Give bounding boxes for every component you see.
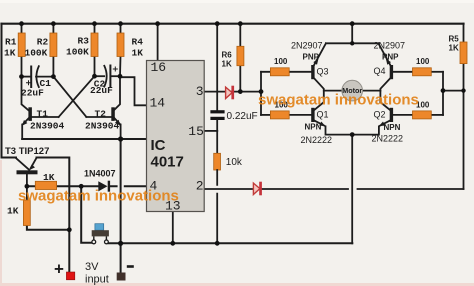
resistor 100 ohm Q1 base bbox=[261, 111, 289, 119]
transistor Q3 2N2907 bbox=[289, 43, 326, 102]
wire: IC pin 3 output to bridge left bbox=[204, 91, 261, 93]
resistor R5 1K bbox=[460, 42, 467, 64]
svg-text:input: input bbox=[85, 274, 109, 286]
transistor Q1 2N2222 bbox=[289, 102, 352, 134]
wire: IC pin 13 to bottom rail bbox=[172, 212, 174, 244]
svg-text:22uF: 22uF bbox=[21, 88, 44, 99]
transistor Q4 2N2907 bbox=[378, 43, 412, 102]
svg-text:100K: 100K bbox=[66, 47, 89, 58]
wire: bottom negative rail bbox=[108, 242, 352, 244]
motor M1 bbox=[342, 80, 363, 101]
svg-text:T3 TIP127: T3 TIP127 bbox=[5, 146, 49, 157]
resistor R6 1K pullup bbox=[237, 24, 244, 92]
svg-text:16: 16 bbox=[151, 60, 167, 75]
svg-text:Q3: Q3 bbox=[317, 67, 329, 77]
svg-text:2N3904: 2N3904 bbox=[30, 121, 65, 132]
capacitor 0.22uF reset bbox=[210, 24, 224, 131]
svg-text:T1: T1 bbox=[37, 108, 49, 119]
svg-text:2N2907: 2N2907 bbox=[291, 40, 323, 50]
svg-text:PNP: PNP bbox=[303, 53, 320, 62]
resistor 100 ohm Q4 base bbox=[413, 68, 444, 76]
svg-text:1K: 1K bbox=[43, 172, 55, 183]
wire: R4 node to IC pin 14 bbox=[120, 77, 147, 105]
wire: left base feed vertical from pin 3 bbox=[260, 72, 262, 115]
resistor 100 ohm Q3 base bbox=[261, 68, 289, 76]
svg-text:1K: 1K bbox=[4, 48, 16, 59]
svg-text:2: 2 bbox=[196, 178, 204, 193]
svg-text:1K: 1K bbox=[7, 206, 19, 217]
wire: battery minus lead bbox=[120, 243, 122, 272]
svg-text:10k: 10k bbox=[226, 157, 243, 168]
svg-text:Q1: Q1 bbox=[317, 109, 329, 119]
svg-text:R2: R2 bbox=[37, 37, 49, 48]
svg-text:swagatam innovations: swagatam innovations bbox=[18, 188, 179, 205]
diode 1N4007 bbox=[98, 181, 110, 192]
svg-text:R5: R5 bbox=[449, 35, 460, 44]
svg-text:1N4007: 1N4007 bbox=[84, 168, 116, 178]
svg-text:swagatam innovations: swagatam innovations bbox=[258, 92, 419, 109]
svg-text:+: + bbox=[54, 260, 64, 279]
resistor R1 1K bbox=[18, 24, 25, 77]
resistor 1K vertical T3 base-emitter bbox=[23, 200, 30, 226]
svg-text:2N3904: 2N3904 bbox=[85, 121, 120, 132]
transistor T1 2N3904 bbox=[22, 77, 59, 139]
push button switch bbox=[92, 224, 109, 244]
svg-text:Q4: Q4 bbox=[374, 66, 386, 76]
wire: negative drop line from emitter rail to bottom rail bbox=[120, 139, 122, 243]
svg-text:22uF: 22uF bbox=[90, 85, 113, 96]
svg-text:PNP: PNP bbox=[382, 53, 399, 62]
wire: T3 base node to 1K resistors bbox=[27, 185, 98, 187]
svg-text:T2: T2 bbox=[95, 108, 107, 119]
wire: left border from top rail down to T3 collector bbox=[1, 24, 3, 158]
battery minus terminal bbox=[117, 273, 126, 281]
capacitor C1 22uF bbox=[22, 66, 54, 87]
IC U1 4017 body bbox=[147, 61, 205, 212]
motor leads bbox=[324, 90, 381, 92]
svg-text:3V: 3V bbox=[85, 261, 99, 273]
svg-text:IC: IC bbox=[151, 137, 166, 154]
wire: R5 node to right base vertical bbox=[443, 90, 464, 92]
resistor R4 1K bbox=[117, 24, 124, 77]
transistor Q2 2N2222 bbox=[352, 102, 412, 134]
wire: diode cathode to IC pin 4 (hops negative drop line) bbox=[110, 185, 146, 187]
transistor T3 TIP127 bbox=[16, 158, 38, 200]
svg-text:1K: 1K bbox=[449, 44, 459, 53]
svg-text:1K: 1K bbox=[222, 60, 232, 69]
svg-text:3: 3 bbox=[196, 84, 204, 99]
svg-text:2N2222: 2N2222 bbox=[372, 134, 404, 144]
wire: +V top supply rail bbox=[2, 23, 464, 25]
capacitor C2 22uF bbox=[95, 66, 120, 87]
wire: right base feed vertical bbox=[442, 72, 444, 115]
wire: T3 collector/emitter row and feed to battery plus bbox=[2, 158, 70, 272]
red break marker on pin 2 wire bbox=[253, 182, 262, 196]
svg-text:4017: 4017 bbox=[151, 153, 184, 170]
wire: IC pin 2 output to bridge right (hops bridge emitter line) bbox=[204, 188, 463, 190]
resistor R3 100K bbox=[91, 24, 98, 76]
wire: IC pin 16 to top rail bbox=[157, 24, 159, 61]
svg-text:NPN: NPN bbox=[384, 123, 401, 132]
wire: bridge top feed bbox=[326, 24, 379, 44]
svg-text:1K: 1K bbox=[132, 48, 144, 59]
wire: right border R5 branch down to pin 2 line bbox=[463, 24, 465, 189]
resistor 1K horizontal at T3 base bbox=[35, 181, 56, 189]
wire: IC pin 15 stub bbox=[204, 130, 217, 132]
wire: bridge emitter line to bottom rail bbox=[351, 135, 353, 244]
wire: emitter ground rail of T1/T2 to IC pin 8 bbox=[22, 138, 146, 140]
svg-text:Q2: Q2 bbox=[374, 109, 386, 119]
wire: lower 1K to battery plus junction bbox=[27, 226, 69, 230]
svg-text:0.22uF: 0.22uF bbox=[227, 111, 258, 122]
transistor T2 2N3904 bbox=[86, 76, 120, 139]
svg-text:100K: 100K bbox=[25, 48, 48, 59]
wire: cross coupling C1 node to T2 base bbox=[53, 77, 86, 117]
svg-text:100: 100 bbox=[416, 57, 430, 66]
svg-text:R4: R4 bbox=[132, 37, 144, 48]
svg-text:100: 100 bbox=[274, 57, 288, 66]
red break marker on pin 3 wire bbox=[226, 86, 234, 100]
label minus bbox=[127, 265, 134, 268]
wire: push button left lead from diode anode node bbox=[81, 186, 92, 243]
svg-text:R6: R6 bbox=[222, 51, 233, 60]
wire: cross coupling C2 node to T1 base bbox=[59, 76, 95, 117]
svg-text:NPN: NPN bbox=[305, 122, 322, 131]
battery plus terminal bbox=[66, 272, 74, 280]
svg-text:2N2222: 2N2222 bbox=[301, 135, 333, 145]
resistor 10k reset pulldown bbox=[214, 131, 221, 243]
svg-text:14: 14 bbox=[150, 96, 166, 111]
resistor R2 100K bbox=[50, 24, 57, 77]
svg-text:R1: R1 bbox=[5, 37, 17, 48]
svg-text:2N2907: 2N2907 bbox=[374, 40, 406, 50]
svg-text:15: 15 bbox=[188, 124, 204, 139]
resistor 100 ohm Q2 base bbox=[413, 111, 444, 119]
svg-text:R3: R3 bbox=[78, 36, 90, 47]
